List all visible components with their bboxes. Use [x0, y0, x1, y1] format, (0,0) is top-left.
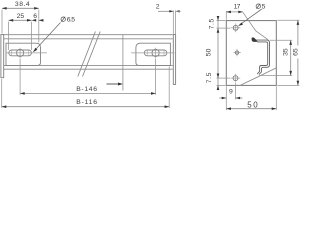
dimension 2 : extension lines up from right end plate	[172, 10, 174, 34]
svg-text:50: 50	[205, 48, 212, 56]
left slot horizontal center line	[6, 52, 48, 54]
dimension B-146 : extension line right (from right slot center)	[155, 59, 157, 95]
bottom hole center cross	[231, 77, 240, 79]
right slot cap ticks	[146, 50, 148, 55]
left slot vertical center tick	[19, 48, 21, 58]
svg-text:B-146: B-146	[76, 86, 97, 93]
label dia 5 : diameter symbol	[256, 4, 260, 8]
dimension B-116 : dimension line with arrows	[2, 106, 170, 108]
left chain : vertical dimension line	[217, 17, 219, 90]
middle hole	[235, 51, 238, 54]
rail profile inner line	[254, 38, 268, 74]
dimension 35 : extension line bottom (profile bottom)	[259, 75, 292, 77]
dimension 35 : extension line top (profile top)	[270, 39, 292, 41]
svg-text:50: 50	[247, 100, 258, 109]
break line 1	[78, 32, 96, 77]
svg-text:2: 2	[156, 4, 160, 11]
left foot plate	[6, 43, 41, 65]
corner bend diagonal line	[240, 68, 276, 86]
dimension 6 : outside arrows and tail	[32, 19, 37, 22]
dimension 65 : extension line top (plate top)	[277, 19, 299, 21]
oblique extension line from 17 dim to profile corner	[243, 12, 268, 40]
dimension 35 : dimension line with arrows	[290, 40, 292, 75]
dimension 25 : extension lines	[8, 22, 10, 50]
dimension 50 bottom : dimension line with arrows	[226, 108, 276, 110]
svg-text:9: 9	[229, 89, 233, 96]
dimension 65 : extension line bottom (plate bottom)	[277, 84, 299, 86]
dimension 2 : tail line and outside arrows	[158, 10, 173, 12]
break line 2	[83, 32, 101, 77]
right slot horizontal center line	[131, 52, 175, 54]
rail top outer line	[4, 34, 173, 36]
dimension 38.4 : dimension line with arrows	[2, 7, 39, 9]
dimension 38.4 : extension line right	[38, 10, 40, 43]
label dia 6.5 : leader with arrow	[34, 23, 61, 52]
dimension B-116 : extension line left	[1, 79, 3, 108]
left chain : extension line at bottom hole center	[217, 77, 231, 79]
left chain arrows	[217, 16, 220, 21]
dimension 25 : dimension line with arrows	[9, 19, 32, 21]
svg-text:38.4: 38.4	[15, 1, 30, 8]
rail profile outer line	[252, 38, 269, 75]
svg-text:17: 17	[234, 4, 241, 11]
left slot circle	[17, 49, 24, 56]
svg-text:6: 6	[33, 13, 37, 20]
right slot circle	[152, 49, 159, 56]
dimension B-116 : extension line right	[168, 67, 170, 109]
svg-text:7.5: 7.5	[206, 72, 213, 83]
svg-text:5: 5	[262, 4, 266, 11]
dimension 50 bottom : extension line right	[275, 86, 277, 110]
dimension 9 : extension lines down	[225, 86, 227, 110]
rail top inner line	[4, 38, 173, 40]
label dia 6.5 : diameter symbol	[61, 17, 65, 21]
rail bottom outer line	[4, 68, 173, 70]
dimension B-146 : dimension line with arrows	[20, 92, 156, 94]
top hole	[233, 25, 238, 30]
svg-text:7.5: 7.5	[208, 18, 215, 29]
right slot vertical center tick	[155, 48, 157, 58]
rail bottom inner line	[4, 64, 173, 66]
svg-text:65: 65	[293, 48, 300, 56]
svg-text:B-116: B-116	[76, 99, 97, 106]
end plate outline	[226, 21, 276, 86]
reference arrow pointing right at vertical line	[107, 83, 120, 85]
right end plate	[173, 35, 175, 85]
right foot plate	[136, 43, 171, 65]
right slot (obround)	[144, 50, 167, 56]
dimension 17 : dimension line with arrows	[226, 11, 243, 13]
svg-text:35: 35	[282, 48, 289, 56]
reference vertical line at break	[122, 35, 124, 91]
left end plate	[1, 35, 4, 78]
left chain : extension line at top hole center	[217, 27, 231, 29]
middle hole center cross	[233, 52, 240, 54]
left chain : extension line at plate top	[217, 20, 226, 22]
dimension 38.4 : extension line left	[1, 10, 3, 34]
dimension 17 : left extension (plate edge up)	[225, 11, 227, 20]
left slot (obround)	[9, 50, 32, 56]
svg-text:6.5: 6.5	[67, 17, 75, 24]
label dia 5 : leader with arrow to top hole	[239, 9, 261, 25]
left slot cap ticks	[11, 50, 13, 55]
left chain : extension line at plate bottom	[217, 84, 226, 86]
bottom hole	[233, 76, 238, 81]
top hole center cross	[231, 27, 240, 29]
rail profile lip (dark)	[252, 38, 257, 42]
dimension 65 : dimension line with arrows	[297, 20, 299, 45]
dimension 9 : outside arrows with tails	[219, 97, 226, 99]
svg-text:25: 25	[17, 13, 25, 20]
dimension B-146 : extension line left (from left slot center)	[19, 59, 21, 95]
